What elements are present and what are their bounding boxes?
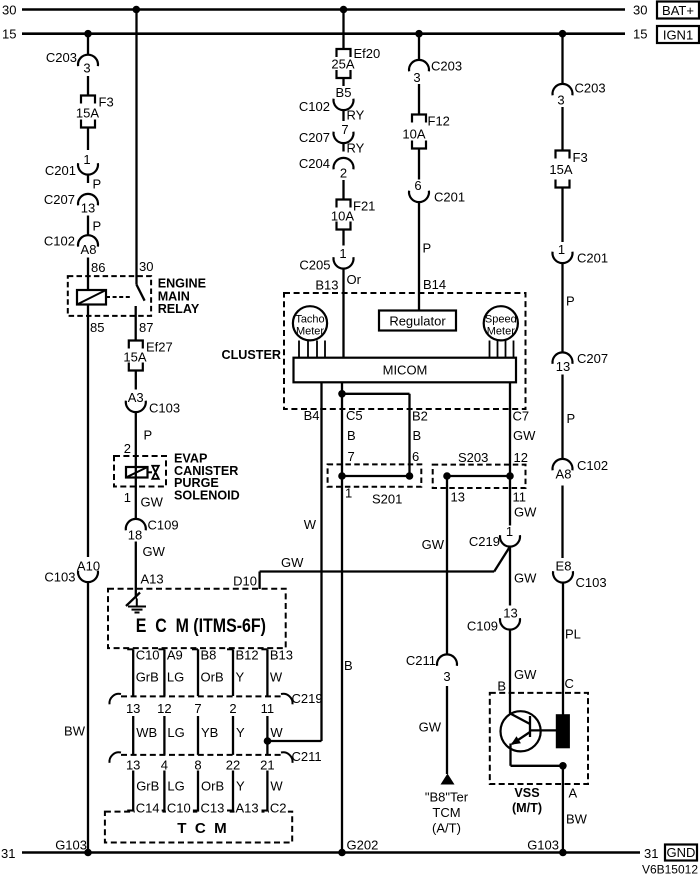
svg-text:P: P [567, 411, 576, 426]
svg-text:P: P [93, 177, 102, 192]
svg-text:B: B [347, 428, 356, 443]
svg-text:GND: GND [667, 845, 696, 860]
svg-text:B2: B2 [412, 409, 428, 424]
svg-text:2: 2 [340, 166, 347, 181]
svg-text:GrB: GrB [136, 779, 159, 794]
svg-text:22: 22 [226, 758, 240, 773]
svg-text:7: 7 [348, 449, 355, 464]
svg-text:15A: 15A [76, 106, 99, 121]
svg-text:LG: LG [167, 725, 184, 740]
svg-text:C203: C203 [431, 59, 462, 74]
svg-text:C211: C211 [406, 653, 436, 668]
svg-text:2: 2 [124, 441, 131, 456]
svg-text:8: 8 [194, 758, 201, 773]
svg-text:7: 7 [341, 122, 348, 137]
svg-text:A10: A10 [77, 559, 100, 574]
svg-text:13: 13 [126, 758, 140, 773]
svg-text:WB: WB [136, 725, 157, 740]
svg-text:A3: A3 [128, 390, 144, 405]
svg-text:Y: Y [236, 779, 245, 794]
svg-text:LG: LG [167, 670, 184, 685]
svg-text:SOLENOID: SOLENOID [174, 488, 240, 502]
svg-text:MICOM: MICOM [383, 363, 428, 378]
svg-text:P: P [566, 294, 575, 309]
svg-text:E8: E8 [556, 559, 572, 574]
svg-text:GW: GW [143, 544, 166, 559]
svg-text:GW: GW [513, 428, 536, 443]
svg-text:F3: F3 [99, 95, 114, 110]
svg-text:RY: RY [347, 108, 365, 123]
svg-text:31: 31 [1, 846, 15, 861]
svg-text:P: P [144, 428, 153, 443]
svg-text:B5: B5 [336, 85, 352, 100]
svg-text:C102: C102 [577, 458, 608, 473]
svg-text:BAT+: BAT+ [662, 3, 694, 18]
svg-text:Meter: Meter [296, 326, 324, 338]
svg-text:C207: C207 [577, 351, 608, 366]
svg-text:C102: C102 [44, 234, 75, 249]
svg-text:13: 13 [503, 606, 517, 621]
svg-text:4: 4 [161, 758, 168, 773]
svg-text:GW: GW [514, 571, 537, 586]
svg-text:C201: C201 [577, 251, 608, 266]
svg-text:PL: PL [565, 627, 581, 642]
svg-text:13: 13 [126, 701, 140, 716]
svg-text:A8: A8 [556, 467, 572, 482]
svg-text:15: 15 [2, 27, 16, 42]
svg-text:B4: B4 [304, 408, 320, 423]
svg-text:GW: GW [514, 505, 537, 520]
svg-text:Y: Y [236, 670, 245, 685]
svg-text:31: 31 [644, 846, 658, 861]
svg-text:B8: B8 [201, 648, 217, 663]
svg-text:G103: G103 [55, 838, 87, 853]
svg-text:S201: S201 [372, 492, 402, 507]
svg-text:W: W [270, 725, 283, 740]
svg-text:1: 1 [558, 242, 565, 257]
svg-text:T C M: T C M [177, 820, 226, 837]
svg-text:C109: C109 [467, 619, 498, 634]
svg-text:GW: GW [514, 667, 537, 682]
svg-text:G103: G103 [527, 838, 559, 853]
svg-text:C211: C211 [292, 749, 322, 764]
svg-text:GW: GW [422, 537, 445, 552]
svg-text:Meter: Meter [487, 326, 515, 338]
svg-text:C203: C203 [575, 81, 606, 96]
svg-text:A8: A8 [81, 242, 97, 257]
svg-text:11: 11 [261, 701, 275, 716]
svg-text:B13: B13 [315, 278, 338, 293]
svg-text:15: 15 [633, 27, 647, 42]
svg-text:12: 12 [157, 701, 171, 716]
svg-text:W: W [270, 670, 283, 685]
svg-text:C201: C201 [434, 190, 465, 205]
svg-text:C10: C10 [167, 801, 191, 816]
svg-text:C103: C103 [44, 570, 75, 585]
svg-text:C109: C109 [148, 518, 179, 533]
svg-text:C10: C10 [136, 648, 160, 663]
svg-text:6: 6 [412, 449, 419, 464]
svg-text:F12: F12 [428, 114, 450, 129]
svg-text:15A: 15A [123, 350, 146, 365]
svg-text:G202: G202 [347, 838, 379, 853]
svg-text:13: 13 [556, 359, 570, 374]
svg-text:B12: B12 [236, 648, 259, 663]
svg-text:21: 21 [260, 758, 274, 773]
svg-text:S203: S203 [458, 450, 488, 465]
svg-text:OrB: OrB [201, 670, 224, 685]
svg-text:C204: C204 [299, 156, 330, 171]
svg-text:GrB: GrB [136, 670, 159, 685]
svg-text:3: 3 [557, 93, 564, 108]
svg-text:1: 1 [124, 490, 131, 505]
svg-text:C207: C207 [44, 192, 75, 207]
svg-text:RELAY: RELAY [158, 302, 200, 316]
svg-text:1: 1 [339, 246, 346, 261]
svg-text:30: 30 [633, 3, 647, 18]
svg-text:W: W [304, 517, 317, 532]
svg-text:A13: A13 [141, 572, 164, 587]
svg-text:GW: GW [281, 555, 304, 570]
svg-text:B: B [413, 428, 422, 443]
svg-text:BW: BW [566, 812, 588, 827]
svg-text:10A: 10A [402, 127, 425, 142]
svg-text:3: 3 [83, 61, 90, 76]
svg-text:W: W [270, 779, 283, 794]
svg-text:6: 6 [414, 178, 421, 193]
svg-text:C: C [565, 676, 574, 691]
svg-text:F21: F21 [353, 199, 375, 214]
svg-text:1: 1 [83, 152, 90, 167]
svg-text:3: 3 [413, 70, 420, 85]
svg-text:C201: C201 [45, 163, 76, 178]
svg-text:86: 86 [91, 260, 105, 275]
svg-text:D10: D10 [233, 574, 257, 589]
svg-text:C219: C219 [469, 534, 500, 549]
svg-text:C13: C13 [201, 801, 225, 816]
svg-text:IGN1: IGN1 [663, 28, 693, 43]
svg-text:87: 87 [139, 320, 153, 335]
svg-text:(A/T): (A/T) [432, 821, 461, 836]
svg-text:GW: GW [141, 495, 164, 510]
svg-text:85: 85 [90, 320, 104, 335]
svg-text:30: 30 [139, 259, 153, 274]
svg-text:C203: C203 [46, 50, 77, 65]
svg-text:B: B [344, 658, 353, 673]
svg-text:C102: C102 [299, 99, 330, 114]
svg-text:C5: C5 [346, 408, 363, 423]
svg-text:12: 12 [514, 450, 528, 465]
svg-text:V6B15012: V6B15012 [642, 863, 698, 877]
svg-text:LG: LG [167, 779, 184, 794]
svg-text:7: 7 [194, 701, 201, 716]
svg-text:A: A [569, 786, 578, 801]
svg-text:B13: B13 [270, 648, 293, 663]
svg-text:Ef27: Ef27 [146, 340, 173, 355]
svg-text:P: P [423, 241, 432, 256]
svg-text:A9: A9 [167, 648, 183, 663]
svg-text:Ef20: Ef20 [354, 46, 381, 61]
svg-text:TCM: TCM [432, 805, 460, 820]
svg-text:(M/T): (M/T) [512, 801, 542, 815]
svg-text:13: 13 [81, 201, 95, 216]
svg-text:2: 2 [229, 701, 236, 716]
svg-text:CLUSTER: CLUSTER [222, 348, 281, 362]
svg-text:"B8"Ter: "B8"Ter [425, 790, 469, 805]
svg-text:1: 1 [506, 524, 513, 539]
svg-text:11: 11 [513, 490, 527, 505]
svg-text:E C M (ITMS-6F): E C M (ITMS-6F) [136, 616, 266, 637]
svg-text:C219: C219 [292, 691, 323, 706]
svg-text:30: 30 [2, 3, 16, 18]
svg-text:OrB: OrB [201, 779, 224, 794]
svg-text:C103: C103 [576, 575, 607, 590]
svg-text:18: 18 [128, 528, 142, 543]
svg-text:F3: F3 [573, 150, 588, 165]
svg-text:C205: C205 [299, 258, 330, 273]
svg-text:YB: YB [201, 725, 218, 740]
svg-text:3: 3 [443, 669, 450, 684]
svg-text:Or: Or [347, 272, 362, 287]
svg-text:VSS: VSS [514, 786, 539, 800]
svg-text:13: 13 [451, 490, 465, 505]
svg-text:B: B [497, 679, 506, 694]
svg-text:C207: C207 [299, 130, 330, 145]
svg-text:B14: B14 [423, 277, 446, 292]
svg-text:Speed: Speed [485, 314, 517, 326]
svg-text:A13: A13 [236, 801, 259, 816]
svg-text:C2: C2 [270, 801, 287, 816]
svg-text:BW: BW [64, 724, 86, 739]
svg-text:10A: 10A [331, 209, 354, 224]
svg-text:Tacho: Tacho [295, 314, 324, 326]
svg-text:25A: 25A [331, 57, 354, 72]
svg-text:P: P [93, 219, 102, 234]
svg-text:C103: C103 [149, 401, 180, 416]
svg-text:Y: Y [236, 725, 245, 740]
svg-text:GW: GW [419, 720, 442, 735]
svg-text:Regulator: Regulator [389, 314, 446, 329]
svg-text:C14: C14 [136, 801, 160, 816]
svg-text:15A: 15A [549, 162, 572, 177]
svg-text:C7: C7 [513, 409, 530, 424]
svg-text:RY: RY [347, 141, 365, 156]
svg-text:1: 1 [345, 486, 352, 501]
